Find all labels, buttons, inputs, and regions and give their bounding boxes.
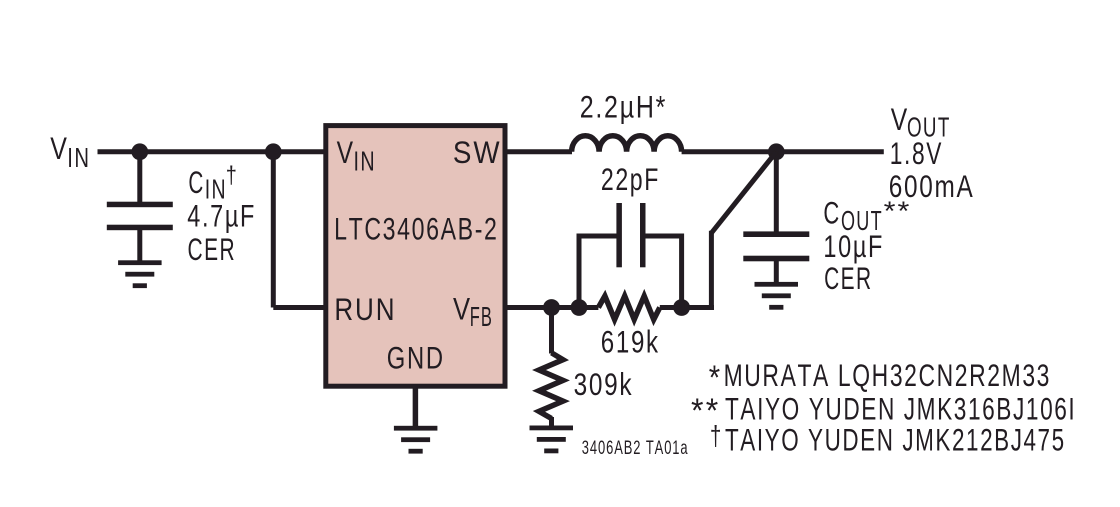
svg-text:IN: IN	[354, 146, 376, 177]
wire 309k bottom lead	[549, 417, 554, 426]
note 1 MURATA	[709, 357, 1051, 396]
label COUT with asterisks	[823, 194, 911, 236]
wire CIN top lead	[137, 152, 142, 202]
svg-text:22pF: 22pF	[601, 162, 660, 197]
resistor R2 309k	[539, 353, 563, 419]
svg-text:2.2µH*: 2.2µH*	[580, 90, 667, 126]
inductor L1 2.2uH	[572, 136, 682, 152]
junction at CIN	[131, 143, 148, 160]
wire 22pF right branch vertical	[679, 234, 684, 308]
junction at 22pF left branch	[571, 299, 588, 316]
svg-text:TAIYO YUDEN JMK212BJ475: TAIYO YUDEN JMK212BJ475	[725, 422, 1066, 458]
svg-text:CER: CER	[824, 261, 873, 296]
ground under IC GND pin	[394, 426, 438, 454]
node VOUT label	[891, 102, 951, 142]
svg-text:CER: CER	[188, 232, 237, 267]
wire RUN branch horizontal	[273, 305, 324, 310]
capacitor CIN	[107, 202, 173, 231]
svg-text:V: V	[453, 292, 471, 327]
label CIN with dagger	[188, 161, 236, 205]
note 2 TAIYO YUDEN JMK316BJ106I	[691, 390, 1076, 429]
svg-text:C: C	[823, 194, 839, 230]
svg-text:C: C	[188, 165, 203, 201]
wire feedback right horizontal	[682, 305, 714, 310]
wire 309k top lead	[549, 308, 554, 354]
junction at 309k	[543, 299, 560, 316]
svg-text:IN: IN	[67, 143, 90, 174]
wire 22pF right branch horizontal	[644, 234, 685, 239]
svg-text:309k: 309k	[574, 367, 634, 403]
ground under 309k	[530, 426, 574, 454]
svg-text:10µF: 10µF	[823, 228, 884, 263]
junction at RUN branch	[265, 143, 282, 160]
svg-text:V: V	[337, 135, 353, 171]
wire VFB pin to divider	[506, 305, 598, 310]
svg-text:4.7µF: 4.7µF	[187, 198, 256, 233]
wire 619k right lead	[660, 305, 682, 310]
junction at 22pF right branch	[673, 299, 690, 316]
svg-text:FB: FB	[470, 300, 493, 332]
wire 22pF left branch vertical	[577, 234, 582, 308]
wire COUT bottom lead	[774, 261, 779, 283]
wire diagonal VOUT to feedback	[711, 152, 776, 233]
svg-text:†: †	[710, 421, 721, 452]
svg-text:†: †	[226, 161, 237, 188]
capacitor COUT	[743, 231, 809, 261]
wire VIN to IC VIN pin	[98, 149, 325, 154]
note 3 TAIYO YUDEN JMK212BJ475	[710, 421, 1066, 457]
wire CIN bottom lead	[137, 230, 142, 261]
junction VOUT node	[768, 143, 785, 160]
wire GND pin lead	[413, 388, 419, 426]
ground under CIN	[118, 260, 162, 288]
pin label VFB	[453, 292, 493, 332]
svg-text:**: **	[884, 197, 912, 227]
svg-text:1.8V: 1.8V	[890, 135, 943, 171]
wire RUN branch vertical	[271, 152, 276, 308]
svg-text:3406AB2 TA01a: 3406AB2 TA01a	[582, 436, 689, 458]
svg-text:LTC3406AB-2: LTC3406AB-2	[334, 211, 498, 246]
svg-text:619k: 619k	[601, 323, 660, 359]
svg-text:RUN: RUN	[334, 292, 396, 327]
resistor R1 619k	[598, 296, 659, 320]
wire inductor to VOUT	[682, 149, 884, 154]
svg-text:GND: GND	[387, 340, 445, 375]
capacitor C1 22pF	[616, 203, 645, 267]
svg-text:SW: SW	[453, 135, 502, 170]
svg-text:V: V	[891, 102, 907, 138]
wire 22pF left branch horizontal	[577, 234, 619, 239]
node VIN label	[50, 131, 90, 174]
wire COUT top lead	[774, 152, 779, 232]
ground under COUT	[755, 282, 799, 310]
IC U1 LTC3406AB-2	[326, 126, 505, 387]
svg-text:V: V	[50, 131, 67, 167]
wire feedback right vertical	[709, 231, 714, 308]
wire SW pin to inductor	[506, 149, 572, 154]
pin label VIN	[337, 135, 376, 177]
svg-text:MURATA LQH32CN2R2M33: MURATA LQH32CN2R2M33	[724, 357, 1051, 393]
